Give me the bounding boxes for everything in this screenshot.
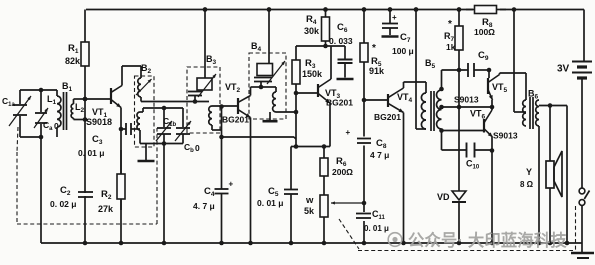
IF transformer B4 cap — [254, 77, 272, 79]
battery 3V — [583, 10, 585, 62]
wire B4 supply feed — [268, 10, 270, 64]
wire center tap to VT5 VT6 node — [442, 106, 493, 108]
wire VT1 collector to B2 — [121, 66, 123, 86]
dashed link from W — [339, 219, 359, 249]
output transformer B6 primary — [523, 100, 526, 126]
adjustable core arrow B4 — [267, 61, 285, 84]
capacitor C2 0.02u — [78, 191, 93, 193]
dashed shield box bottom — [17, 223, 157, 225]
ground at C6 — [337, 78, 354, 81]
watermark — [388, 231, 567, 250]
IF transformer B3 primary inductor — [197, 78, 212, 90]
oscillator coil B2 box — [135, 76, 155, 147]
trimmer capacitor Ca0 — [39, 88, 44, 93]
dashed gang link C1b — [156, 128, 158, 224]
core B5 — [430, 91, 432, 131]
resistor R8 100ohm in rail — [466, 9, 475, 11]
svg-text:150k: 150k — [302, 69, 323, 79]
transistor VT5 S9013 — [488, 70, 490, 78]
wire bias line y70 — [442, 69, 466, 71]
antenna coil L1 — [56, 90, 58, 96]
wire B6 center tap feed — [513, 10, 515, 113]
ferrite core B1 — [63, 92, 65, 130]
wire AGC to R3 node — [222, 136, 295, 138]
IF transformer B4 box — [249, 53, 286, 119]
potentiometer W 5k — [320, 195, 328, 217]
driver transformer B5 primary — [421, 93, 426, 129]
IF transformer B3 primary cap — [188, 91, 202, 93]
diode VD — [452, 191, 466, 200]
transistor VT4 BG201 — [364, 99, 388, 101]
capacitor C3 0.01u — [121, 128, 126, 130]
svg-text:0: 0 — [195, 143, 200, 153]
IF transformer B3 secondary coil — [209, 106, 212, 125]
svg-text:0. 01 μ: 0. 01 μ — [257, 198, 283, 208]
oscillator coil B2 secondary — [137, 128, 140, 130]
ground at C7 — [382, 35, 399, 38]
electrolytic capacitor C4 4.7u — [219, 135, 224, 140]
IF transformer B4 primary inductor — [257, 64, 273, 76]
svg-text:*: * — [448, 19, 452, 30]
wire VT4 emitter to rail — [403, 113, 405, 244]
svg-text:8 Ω: 8 Ω — [520, 180, 534, 189]
wire tank bottom — [140, 143, 183, 145]
svg-text:0. 01 μ: 0. 01 μ — [78, 148, 104, 158]
svg-text:Y: Y — [526, 167, 532, 177]
svg-text:+: + — [229, 180, 234, 189]
resistor R7 1k — [458, 10, 460, 27]
wire VT2 collector to B4 — [250, 87, 252, 96]
capacitor C9 — [467, 63, 469, 77]
svg-text:S9013: S9013 — [493, 131, 518, 141]
ground at B2 tank — [145, 144, 147, 161]
svg-text:200Ω: 200Ω — [332, 167, 353, 177]
IF transformer B3 box — [187, 67, 220, 133]
wire VT5 emitter junction — [491, 100, 493, 107]
svg-text:0. 033: 0. 033 — [329, 36, 353, 46]
output transformer B6 secondary — [536, 100, 539, 126]
wire VT2 emitter to rail — [250, 118, 252, 244]
svg-text:公众号· 大印蓝海科技: 公众号· 大印蓝海科技 — [408, 231, 567, 250]
svg-text:4. 7 μ: 4. 7 μ — [193, 201, 215, 211]
svg-text:4 7 μ: 4 7 μ — [370, 150, 389, 160]
coupling coil L2 — [71, 104, 73, 118]
speaker Y 8ohm — [546, 161, 554, 188]
wire VT6 collector — [491, 107, 493, 110]
wire VT4 collector to B5 — [403, 82, 405, 88]
core B6 — [529, 97, 531, 129]
trimmer capacitor Cb0 — [182, 108, 184, 127]
resistor R1 82k — [84, 10, 86, 43]
wire R1 to L2 bottom to C2 — [84, 99, 86, 243]
wire VT3 base — [296, 92, 318, 94]
IF transformer B4 secondary coil — [273, 92, 276, 112]
wire oscillator tank top — [143, 107, 183, 109]
wire R7 to VD — [458, 70, 460, 191]
svg-text:30k: 30k — [304, 26, 320, 36]
wire antenna ground leg — [40, 137, 42, 243]
variable capacitor C1a — [20, 89, 57, 91]
resistor R2 27k — [120, 150, 122, 174]
wire VT5 collector to B6 — [499, 73, 501, 75]
svg-text:VD: VD — [437, 192, 450, 202]
svg-text:+: + — [346, 128, 351, 137]
wire B6 to speaker and switch — [539, 105, 567, 107]
resistor R3 150k — [292, 60, 300, 84]
wire VT3 emitter to R6 node — [329, 103, 331, 147]
svg-text:100 μ: 100 μ — [392, 46, 414, 56]
svg-text:0. 02 μ: 0. 02 μ — [50, 199, 76, 209]
resistor R6 200ohm — [323, 147, 325, 159]
dashed switch gang link — [575, 206, 577, 251]
capacitor C6 0.033 — [344, 46, 346, 60]
wire VT6 emitter to rail — [491, 137, 493, 243]
svg-text:27k: 27k — [98, 204, 114, 214]
svg-text:BG201: BG201 — [374, 112, 401, 122]
svg-text:3V: 3V — [557, 64, 570, 75]
junction dots bottom rail — [83, 241, 88, 246]
wire VT1 emitter to R2 — [120, 108, 122, 244]
transistor VT3 BG201 — [317, 84, 319, 97]
svg-text:1k: 1k — [446, 42, 456, 52]
wire top supply rail — [86, 9, 473, 11]
wire R5 line — [363, 10, 365, 244]
wire R4 R3 C6 node — [296, 45, 345, 47]
svg-text:*: * — [372, 43, 376, 54]
capacitor C5 0.01u — [290, 147, 292, 190]
wire VT3 collector — [330, 46, 332, 79]
svg-text:w: w — [305, 195, 314, 206]
svg-text:+: + — [392, 13, 397, 22]
junction dots top rail — [203, 7, 208, 12]
wire VT6 base — [442, 130, 485, 132]
transistor VT1 S9018 — [85, 98, 111, 100]
wire B2 to B3 oscillator line — [140, 97, 142, 102]
wire bottom common rail — [41, 242, 582, 244]
ground at B4 — [269, 112, 271, 121]
wire B3 supply feed — [204, 10, 206, 79]
dashed gang link C1a — [17, 127, 18, 152]
svg-text:S9018: S9018 — [86, 117, 112, 127]
wire B5 primary return to rail — [415, 10, 417, 130]
svg-text:BG201: BG201 — [222, 115, 249, 125]
capacitor C8 4.7u — [357, 137, 371, 146]
adjustable core arrow B3 — [198, 74, 216, 97]
wire tank to common rail — [163, 144, 165, 244]
driver transformer B5 secondary — [437, 90, 442, 129]
switch contacts — [579, 188, 585, 194]
svg-text:91k: 91k — [369, 66, 385, 76]
capacitor C10 — [442, 149, 467, 151]
ganged variable capacitor C1b — [163, 108, 165, 127]
capacitor C11 0.01u — [357, 212, 371, 221]
wire VT3 base node — [295, 46, 297, 147]
transistor VT2 BG201 — [237, 98, 239, 114]
resistor R4 30k — [325, 10, 327, 18]
svg-text:100Ω: 100Ω — [474, 27, 495, 37]
svg-text:0. 01 μ: 0. 01 μ — [364, 224, 389, 233]
svg-text:82k: 82k — [65, 56, 81, 66]
resistor R5 91k — [360, 43, 368, 62]
svg-text:5k: 5k — [304, 206, 315, 216]
transistor VT6 S9013 — [483, 119, 485, 133]
svg-text:S9013: S9013 — [454, 95, 479, 105]
oscillator coil B2 primary — [138, 78, 141, 97]
electrolytic capacitor C7 100u — [389, 10, 391, 24]
